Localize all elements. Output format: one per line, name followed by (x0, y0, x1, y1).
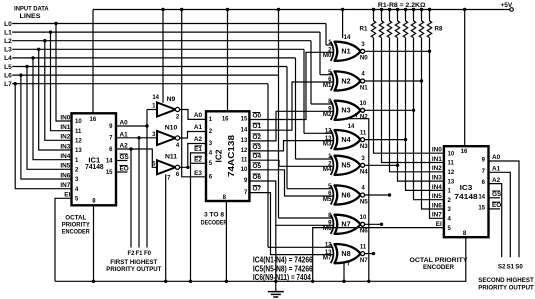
junction rail at R1 (372, 8, 375, 11)
wire O1 of IC2 to gate N2 lower input (249, 82, 333, 130)
svg-text:L7: L7 (4, 81, 12, 88)
wire L6 drop to gate N7 upper input (278, 75, 280, 218)
wire F2 vertical (130, 149, 132, 248)
junction L4 stair (31, 56, 34, 59)
wire L7 drop to IC1 IN7 (15, 84, 71, 189)
junction L0 stair (54, 22, 57, 25)
wire L1 drop to gate N2 upper input (319, 32, 321, 75)
svg-text:13: 13 (75, 148, 82, 154)
svg-text:IN1: IN1 (432, 156, 442, 163)
svg-text:EO: EO (492, 202, 501, 209)
svg-text:N2: N2 (360, 114, 368, 121)
wire IC2 E3 from rail (+5V) (182, 10, 206, 177)
wire L7 drop to gate N8 upper input (267, 84, 269, 248)
svg-text:L0: L0 (4, 21, 12, 28)
wire O6 of IC2 to gate N7 lower input (249, 181, 333, 225)
wire N11 pin7 ground stub (165, 174, 167, 281)
junction gate N4 output at R5 vertical (404, 138, 407, 141)
svg-text:15: 15 (478, 206, 485, 212)
svg-text:DECODER: DECODER (201, 220, 228, 227)
svg-text:S0: S0 (515, 264, 523, 271)
wire N10 output to IC2 A1 (179, 132, 206, 139)
wire A0 of IC3 to S0 (489, 161, 520, 257)
svg-text:10: 10 (75, 119, 82, 125)
svg-text:A0: A0 (492, 154, 501, 161)
junction gate N2 output at R7 vertical (420, 79, 423, 82)
svg-text:14: 14 (344, 35, 351, 41)
junction rail at R6 (412, 8, 415, 11)
wire R8 vertical to IC3 IN7 (430, 38, 444, 219)
label O6 of IC2 (253, 174, 262, 181)
wire IC2 pin8 to ground rail (225, 201, 227, 281)
svg-text:EI: EI (64, 192, 70, 199)
wire L0 drop to IC1 IN0 (56, 24, 72, 122)
wire A2 of IC1 (116, 149, 157, 167)
svg-text:14: 14 (152, 95, 159, 101)
label EO of IC3 (492, 202, 501, 209)
wire N11 output to IC2 A2 (179, 144, 206, 168)
wire O3 of IC2 to gate N4 lower input (249, 141, 333, 151)
wire IC4 pin14 from rail (342, 10, 344, 39)
wire L4 horizontal (12, 57, 295, 59)
wire L6 horizontal (12, 74, 278, 76)
wire O5 of IC2 to gate N6 lower input (249, 170, 333, 196)
svg-text:16: 16 (222, 117, 229, 123)
junction rail at R4 (396, 8, 399, 11)
wire gate N1 upper input entry (326, 44, 333, 46)
svg-text:OCTAL PRIORITY: OCTAL PRIORITY (410, 257, 469, 264)
junction rail at N9 pin14 (161, 8, 164, 11)
junction L2 stair (43, 39, 46, 42)
svg-text:N6: N6 (360, 228, 368, 235)
svg-text:A2: A2 (492, 177, 501, 184)
wire N8 output (365, 253, 374, 255)
wire L4 drop to gate N5 upper input (295, 58, 297, 159)
xnor gate N4 (331, 130, 365, 149)
wire L4 drop to IC1 IN4 (33, 58, 72, 160)
svg-text:N0: N0 (360, 55, 368, 62)
svg-text:PRIORITY OUTPUT: PRIORITY OUTPUT (106, 266, 161, 273)
svg-text:13: 13 (241, 138, 248, 144)
wire O0 of IC2 to gate N1 lower input (249, 52, 333, 119)
junction E1E2 ground vertical at rail (189, 280, 192, 283)
resistor R7 (419, 10, 423, 38)
svg-text:IN1: IN1 (60, 124, 70, 131)
junction rail at IC3 pin16 (463, 8, 466, 11)
wire L2 horizontal (12, 40, 311, 42)
xnor gate N7 (331, 215, 365, 234)
svg-text:10: 10 (360, 215, 367, 221)
label O0 of IC2 (253, 113, 262, 120)
inverter N9 (157, 103, 180, 117)
svg-text:IN0: IN0 (432, 147, 442, 154)
svg-text:R1-R8 = 2.2KΩ: R1-R8 = 2.2KΩ (378, 2, 426, 9)
svg-text:ENCODER: ENCODER (62, 229, 90, 236)
label O4 of IC2 (253, 153, 262, 160)
wire gate N5 upper input entry (296, 158, 334, 160)
svg-text:EI: EI (436, 221, 442, 228)
svg-text:N3: N3 (341, 106, 350, 115)
svg-text:11: 11 (448, 161, 455, 167)
svg-text:N7: N7 (360, 257, 368, 264)
svg-text:12: 12 (325, 129, 332, 135)
xnor gate N1 (331, 42, 365, 61)
svg-text:N6: N6 (341, 190, 350, 199)
svg-text:INPUT DATA: INPUT DATA (14, 6, 49, 13)
svg-text:14: 14 (478, 194, 485, 200)
svg-text:M6: M6 (323, 225, 332, 232)
wire N4 output (365, 139, 406, 141)
junction gate N7 output at R2 vertical (380, 223, 383, 226)
wire EI of IC3 to ground rail (313, 228, 444, 282)
wire EI of IC1 to ground rail (55, 198, 72, 281)
svg-text:F1: F1 (135, 251, 143, 257)
svg-text:F0: F0 (144, 251, 152, 257)
svg-text:IC4(N1-N4) = 74266: IC4(N1-N4) = 74266 (253, 255, 313, 264)
label O3 of IC2 (253, 144, 262, 151)
junction rail at R8 (428, 8, 431, 11)
svg-text:10: 10 (360, 101, 367, 107)
label GS of IC3 (492, 191, 502, 198)
junction IC2 pin8 at ground rail (225, 280, 228, 283)
xnor gate N5 (331, 156, 365, 175)
wire E1 of IC2 to ground vertical (191, 153, 207, 281)
resistor R4 (395, 10, 399, 38)
wire L2 drop to IC1 IN2 (45, 41, 72, 141)
svg-text:11: 11 (241, 157, 248, 163)
op-amp IC3 74148 box (444, 146, 489, 237)
svg-text:N5: N5 (360, 198, 368, 205)
svg-text:IN3: IN3 (60, 143, 70, 150)
ground symbol (268, 281, 284, 297)
svg-text:10: 10 (241, 167, 248, 173)
junction N11 pin7 at ground rail (164, 280, 167, 283)
svg-text:N1: N1 (360, 84, 368, 91)
svg-text:IC3: IC3 (460, 183, 473, 192)
wire N7 output (365, 223, 382, 225)
svg-text:SECOND HIGHEST: SECOND HIGHEST (478, 277, 534, 284)
label E1 of IC2 (194, 146, 202, 153)
svg-text:S1: S1 (507, 264, 515, 271)
junction rail at IC2 pin16 (226, 8, 229, 11)
svg-text:O4: O4 (253, 153, 262, 160)
svg-text:L2: L2 (4, 38, 12, 45)
svg-text:L3: L3 (4, 47, 12, 54)
junction IC1 pin8 at ground rail (92, 280, 95, 283)
junction vertical at ground rail x275.8 (274, 280, 277, 283)
wire L7 horizontal (12, 83, 268, 85)
wire L3 drop to gate N4 upper input (303, 49, 305, 133)
wire N1 output (365, 50, 430, 52)
svg-text:74148: 74148 (454, 192, 477, 201)
svg-text:N8: N8 (341, 249, 350, 258)
wire N6 output (365, 194, 390, 196)
xnor gate N3 (331, 101, 365, 120)
svg-text:PRIORITY: PRIORITY (62, 222, 91, 229)
wire L5 drop to gate N6 upper input (286, 67, 288, 189)
junction N8 pin7 at ground rail (342, 280, 345, 283)
wire gate N2 upper input entry (320, 74, 333, 76)
op-amp IC1 74148 box (72, 113, 117, 205)
svg-text:M4: M4 (323, 166, 332, 173)
junction L3 stair (37, 48, 40, 51)
wire L0 drop to gate N1 upper input (325, 24, 327, 46)
svg-text:LINES: LINES (20, 13, 41, 20)
svg-text:13: 13 (448, 179, 455, 185)
svg-text:11: 11 (360, 244, 367, 250)
wire GS stub of IC1 (116, 160, 128, 162)
svg-text:O5: O5 (253, 163, 262, 170)
label EO of IC1 (120, 166, 129, 173)
wire N5 output (365, 164, 398, 166)
label O5 of IC2 (253, 163, 262, 170)
wire R4 vertical to IC3 IN3 (398, 38, 444, 181)
svg-text:M3: M3 (323, 141, 332, 148)
op-amp IC2 74AC138 box (206, 111, 249, 201)
junction IC4 pin7 at ground rail (367, 280, 370, 283)
svg-text:M5: M5 (323, 196, 332, 203)
svg-text:N9: N9 (167, 96, 176, 103)
wire L1 drop to IC1 IN1 (51, 32, 72, 131)
svg-text:N4: N4 (341, 135, 350, 144)
wire IC2 pin16 from rail (227, 10, 229, 112)
svg-text:M1: M1 (323, 82, 332, 89)
svg-text:IC2: IC2 (215, 149, 224, 163)
svg-text:IN4: IN4 (432, 184, 442, 191)
wire A0 tap to N9 input and F0 (147, 109, 157, 111)
wire IC3 pin16 from rail (464, 10, 466, 147)
wire IC4 pin7 ground run (347, 119, 369, 282)
junction L1 stair (49, 30, 52, 33)
svg-text:14: 14 (348, 124, 355, 130)
svg-text:M7: M7 (323, 255, 332, 262)
svg-text:R8: R8 (435, 26, 443, 33)
wire L6 drop to IC1 IN6 (21, 75, 72, 179)
wire A2 of IC3 to S2 (489, 184, 502, 258)
junction N11 output (186, 166, 189, 169)
svg-text:3 TO 8: 3 TO 8 (204, 212, 224, 219)
wire rail drop at x278 (278, 10, 280, 76)
junction rail at R7 (420, 8, 423, 11)
label E2 of IC2 (194, 156, 202, 163)
svg-text:O3: O3 (253, 144, 262, 151)
svg-text:O1: O1 (253, 123, 262, 130)
junction gate N1 output at R8 vertical (428, 50, 431, 53)
svg-text:E1: E1 (194, 146, 202, 153)
svg-text:IN6: IN6 (432, 202, 442, 209)
wire gate N8 upper input entry (268, 246, 333, 248)
svg-text:IN3: IN3 (432, 175, 442, 182)
wire gate N3 upper input entry (311, 103, 333, 105)
svg-text:M2: M2 (323, 111, 332, 118)
svg-text:O6: O6 (253, 174, 262, 181)
resistor R6 (411, 10, 415, 38)
svg-text:R1: R1 (360, 26, 368, 33)
inverter N10 (157, 131, 180, 145)
label O1 of IC2 (253, 123, 262, 130)
xnor gate N2 (331, 71, 365, 90)
wire L3 drop to IC1 IN3 (39, 49, 72, 150)
svg-text:74AC138: 74AC138 (227, 134, 236, 177)
svg-text:PRIORITY OUTPUT: PRIORITY OUTPUT (478, 284, 534, 291)
svg-text:14: 14 (106, 158, 113, 164)
wire A1 of IC3 to S1 (489, 172, 511, 257)
wire N9 pin14 from rail (162, 10, 164, 103)
label O2 of IC2 (253, 134, 262, 141)
svg-text:IN2: IN2 (60, 134, 70, 141)
svg-text:N4: N4 (360, 169, 368, 176)
wire EO stub of IC3 (489, 208, 501, 210)
wire L1 horizontal (12, 31, 320, 33)
inverter N11 (157, 160, 180, 174)
svg-text:11: 11 (360, 130, 367, 136)
junction EI of IC3 at ground rail (311, 280, 314, 283)
wire IC1 pin16 from rail (92, 10, 94, 114)
svg-text:IN2: IN2 (432, 165, 442, 172)
svg-text:N10: N10 (165, 124, 178, 131)
svg-text:11: 11 (75, 129, 82, 135)
junction rail at R3 (388, 8, 391, 11)
svg-text:IN6: IN6 (60, 172, 70, 179)
svg-text:16: 16 (90, 117, 97, 123)
svg-text:L5: L5 (4, 64, 12, 71)
svg-text:74148: 74148 (85, 162, 104, 171)
wire R5 vertical to IC3 IN4 (406, 38, 444, 191)
junction gate N8 output at R1 vertical (372, 252, 375, 255)
wire L3 horizontal (12, 48, 304, 50)
svg-text:M0: M0 (323, 52, 332, 59)
resistor R3 (387, 10, 391, 38)
junction A1 tap (137, 136, 140, 139)
wire L5 drop to IC1 IN5 (27, 67, 72, 170)
resistor R2 (379, 10, 383, 38)
wire A0 of IC1 (116, 125, 147, 127)
wire R6 vertical to IC3 IN5 (414, 38, 444, 200)
svg-text:15: 15 (241, 117, 248, 123)
resistor R1 (371, 10, 375, 38)
svg-text:IN0: IN0 (60, 114, 70, 121)
junction gate N5 output at R4 vertical (396, 164, 399, 167)
svg-text:E3: E3 (194, 170, 202, 177)
svg-text:E2: E2 (194, 156, 202, 163)
svg-text:FIRST HIGHEST: FIRST HIGHEST (110, 259, 157, 266)
svg-text:O2: O2 (253, 134, 262, 141)
wire gate N6 upper input entry (287, 188, 333, 190)
wire L5 horizontal (12, 66, 287, 68)
svg-text:O7: O7 (253, 186, 262, 193)
junction L6 stair (19, 73, 22, 76)
junction L5 stair (25, 65, 28, 68)
wire N8 pin7 ground stub (343, 263, 345, 281)
wire N9 output to IC2 A0 (179, 110, 206, 120)
svg-text:A0: A0 (194, 112, 203, 119)
svg-text:OCTAL: OCTAL (65, 215, 86, 222)
svg-text:ENCODER: ENCODER (423, 264, 454, 271)
svg-text:N2: N2 (341, 76, 350, 85)
wire EO stub of IC1 (116, 171, 128, 173)
wire F1 vertical (138, 138, 140, 248)
svg-text:N5: N5 (341, 161, 350, 170)
svg-text:S2: S2 (498, 264, 506, 271)
svg-text:N3: N3 (360, 143, 368, 150)
junction L7 stair (14, 82, 17, 85)
junction rail at R2 (380, 8, 383, 11)
junction gate N3 output at R6 vertical (412, 109, 415, 112)
wire R7 vertical to IC3 IN6 (422, 38, 444, 209)
wire gate N7 upper input entry (279, 217, 334, 219)
label GS of IC1 (120, 154, 130, 161)
svg-text:IN4: IN4 (60, 153, 70, 160)
wire O7 of IC2 to gate N8 lower input (249, 193, 333, 255)
wire N3 output (365, 109, 414, 111)
junction A0 tap (145, 124, 148, 127)
wire +5V top rail (93, 9, 510, 11)
svg-text:10: 10 (448, 151, 455, 157)
svg-text:15: 15 (106, 170, 113, 176)
wire R1 vertical to IC3 IN0 (374, 38, 444, 153)
junction rail at E3 drop (180, 8, 183, 11)
junction A2 tap (129, 147, 132, 150)
wire R2 vertical to IC3 IN1 (382, 38, 444, 163)
svg-text:14: 14 (241, 127, 248, 133)
svg-text:A2: A2 (194, 136, 203, 143)
wire A1 of IC1 to N10 (116, 137, 157, 139)
wire L0 horizontal (12, 23, 326, 25)
wire gate N4 upper input entry (304, 132, 333, 134)
svg-text:12: 12 (75, 139, 82, 145)
svg-text:F2: F2 (127, 251, 135, 257)
wire R3 vertical to IC3 IN2 (390, 38, 444, 172)
wire L2 drop to gate N3 upper input (310, 41, 312, 104)
wire GS stub of IC3 (489, 197, 501, 199)
xnor gate N6 (331, 185, 365, 204)
svg-text:L4: L4 (4, 55, 12, 62)
svg-text:IC6(N9-N11) = 7404: IC6(N9-N11) = 7404 (253, 273, 311, 282)
wire F0 vertical (146, 126, 148, 248)
wire N2 output (365, 80, 422, 82)
label O7 of IC2 (253, 186, 262, 193)
wire IC1 pin8 to ground rail (93, 205, 95, 281)
svg-text:IN5: IN5 (432, 193, 442, 200)
svg-text:12: 12 (325, 243, 332, 249)
svg-text:N11: N11 (165, 154, 177, 161)
svg-text:L6: L6 (4, 72, 12, 79)
wire F0 vertical top (146, 110, 148, 127)
svg-text:16: 16 (461, 149, 468, 155)
junction rail at R5 (404, 8, 407, 11)
junction rail at IC4 pin14 (341, 8, 344, 11)
wire ground rail (55, 237, 466, 281)
wire E2 of IC2 stub (191, 162, 207, 164)
svg-text:IN5: IN5 (60, 163, 70, 170)
terminal +5V (510, 8, 514, 12)
svg-text:O0: O0 (253, 113, 262, 120)
svg-text:L1: L1 (4, 29, 12, 36)
svg-text:A1: A1 (194, 124, 203, 131)
svg-text:IN7: IN7 (432, 212, 442, 219)
xnor gate N8 (331, 244, 365, 263)
svg-text:12: 12 (241, 148, 248, 154)
svg-text:IN7: IN7 (60, 182, 70, 189)
junction gate N6 output at R3 vertical (388, 193, 391, 196)
junction rail drop x278 (277, 8, 280, 11)
svg-text:12: 12 (448, 170, 455, 176)
svg-text:GS: GS (492, 191, 502, 198)
resistor R8 (427, 10, 431, 38)
wire O4 of IC2 to gate N5 lower input (249, 160, 333, 166)
svg-text:N1: N1 (341, 47, 350, 56)
resistor R5 (403, 10, 407, 38)
